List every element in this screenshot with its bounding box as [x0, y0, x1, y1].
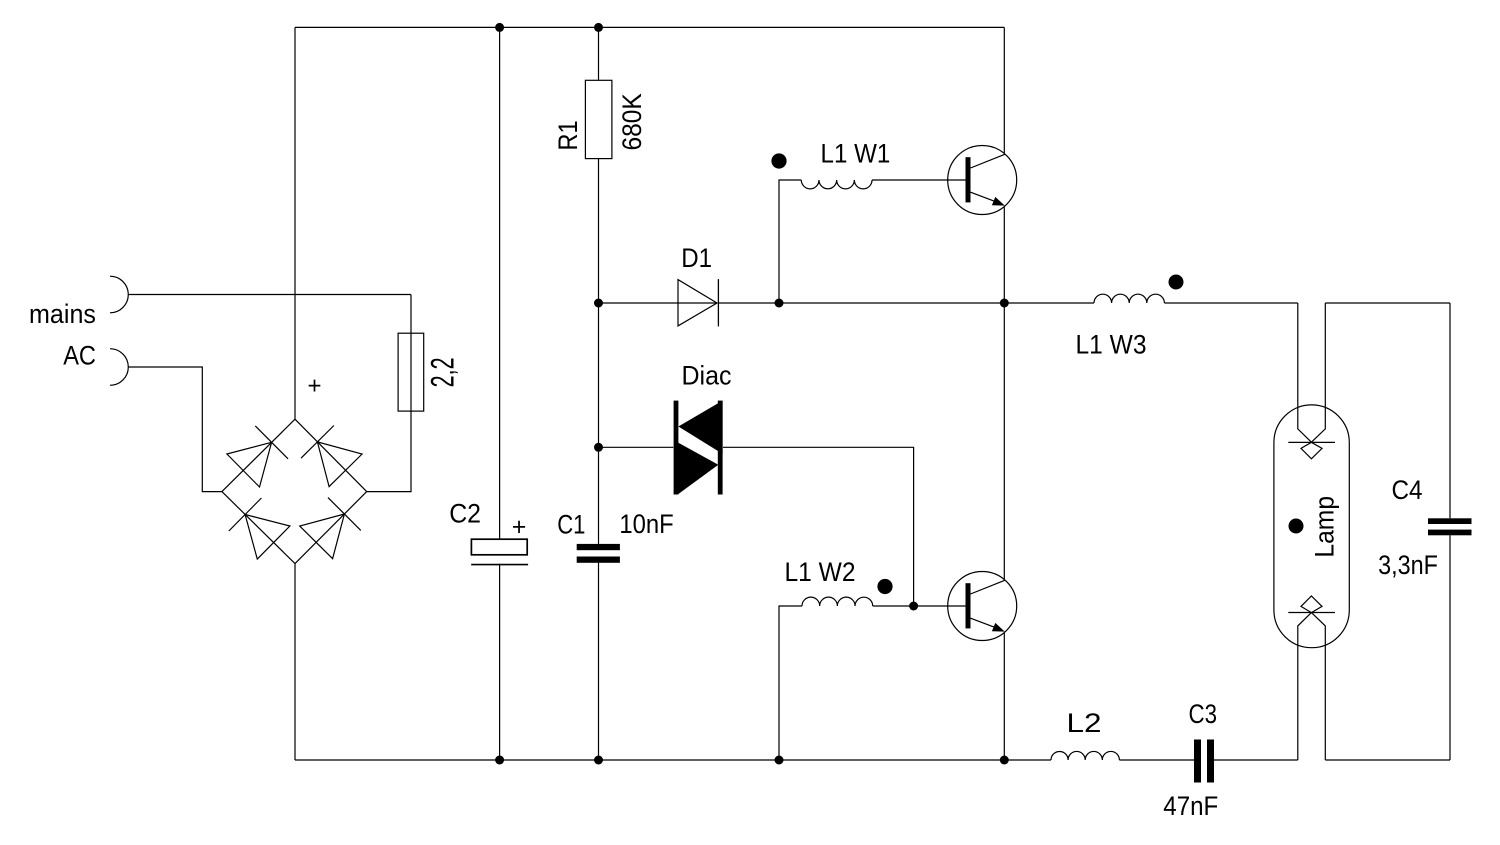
node junction C2 bottom rail	[495, 756, 504, 765]
label R1	[553, 120, 583, 150]
input terminal AC	[110, 349, 128, 386]
wire L2 to C3	[1119, 759, 1194, 761]
wire R1 to node D1	[598, 159, 600, 303]
svg-text:+: +	[307, 372, 321, 399]
svg-text:L2: L2	[1067, 708, 1102, 738]
lamp LP1 envelope	[1274, 405, 1349, 648]
wire C3 to lamp bottom-left lead	[1214, 759, 1298, 761]
wire L1 W3 to lamp top-left lead	[1164, 302, 1297, 304]
capacitor C2 negative plate	[471, 564, 528, 566]
capacitor C1 top plate	[577, 544, 620, 550]
wire Q1 emitter to midpoint	[1003, 207, 1005, 303]
node junction Diac to Q2 base	[909, 602, 918, 611]
label Diac	[682, 361, 732, 391]
lamp cathode dot	[1289, 519, 1304, 534]
wire L1 W2 left leg	[779, 606, 802, 760]
wire top horizontal rail	[295, 26, 1004, 28]
svg-text:C4: C4	[1392, 475, 1423, 505]
winding polarity dot L1 W2	[877, 579, 892, 594]
svg-text:+: +	[512, 513, 527, 541]
winding polarity dot L1 W1	[771, 153, 786, 168]
label Lamp	[1310, 496, 1340, 558]
svg-text:AC: AC	[63, 340, 96, 370]
bridge diode bottom-right (- to AC right)	[295, 492, 367, 564]
wire L1 W1 to Q1 base	[872, 179, 966, 181]
wire Q2 emitter to bottom rail	[1003, 633, 1005, 760]
lamp top electrode	[1288, 303, 1335, 459]
wire lamp top-right lead to C4 branch	[1325, 302, 1450, 304]
winding polarity dot L1 W3	[1169, 275, 1184, 290]
capacitor C4 top plate	[1428, 518, 1472, 524]
label + (bridge positive)	[307, 372, 321, 399]
node junction L1 W1 tap	[775, 299, 784, 308]
wire C4 to bottom	[1449, 535, 1451, 760]
diode D1	[678, 279, 718, 326]
wire mains through fuse to bridge right node	[367, 295, 411, 492]
wire midpoint to Q2 collector	[1003, 303, 1005, 579]
label D1	[681, 243, 712, 273]
diac D2	[674, 401, 723, 495]
inductor L1 W1	[801, 180, 872, 189]
label + (C2 polarity)	[512, 513, 527, 541]
svg-text:Diac: Diac	[682, 361, 732, 391]
wire D1 cathode to half-bridge mid rail	[718, 302, 1094, 304]
wire lamp bottom-right to C4	[1325, 759, 1450, 761]
wire mains terminal to fuse	[128, 294, 411, 296]
wire top rail to Q1 collector	[1003, 27, 1005, 153]
label 10nF	[619, 509, 673, 539]
svg-text:mains: mains	[29, 299, 96, 329]
wire bridge - to bottom rail	[294, 564, 296, 760]
label L1 W1	[821, 139, 891, 169]
label C1	[557, 510, 585, 540]
label L1 W3	[1076, 329, 1147, 359]
svg-text:C2: C2	[449, 498, 481, 528]
label L1 W2	[785, 557, 856, 587]
wire AC terminal to bridge left node	[128, 367, 222, 492]
svg-text:3,3nF: 3,3nF	[1378, 550, 1438, 580]
bridge diode top-left (AC left to +)	[222, 419, 295, 491]
node junction C1 bottom rail	[594, 756, 603, 765]
wire C4 branch down	[1449, 303, 1451, 518]
svg-text:R1: R1	[553, 120, 583, 150]
inductor L1 W3	[1094, 294, 1164, 303]
wire node to Diac	[599, 446, 674, 448]
wire bottom horizontal rail	[295, 759, 1051, 761]
wire C1 to bottom rail	[598, 563, 600, 760]
node junction Diac left	[594, 443, 603, 452]
svg-text:Lamp: Lamp	[1310, 496, 1340, 558]
wire L1 W1 left leg	[779, 180, 801, 303]
svg-text:C3: C3	[1189, 699, 1218, 729]
capacitor C3 left plate	[1194, 740, 1201, 783]
label AC	[63, 340, 96, 370]
node junction D1 anode	[594, 299, 603, 308]
svg-text:L1 W2: L1 W2	[785, 557, 856, 587]
fuse F1 2,2	[398, 333, 424, 411]
wire Diac to Q2 base	[723, 447, 914, 606]
wire L1 W2 to Q2 base	[873, 605, 966, 607]
capacitor C1 bottom plate	[577, 557, 620, 563]
inductor L2	[1051, 751, 1119, 760]
node junction R1 top rail	[594, 23, 603, 32]
resistor R1	[585, 80, 612, 158]
lamp bottom electrode	[1288, 596, 1335, 760]
label 2,2	[425, 357, 461, 387]
capacitor C3 right plate	[1207, 740, 1214, 783]
capacitor C4 bottom plate	[1428, 530, 1472, 536]
transistor Q2	[948, 572, 1017, 641]
svg-text:D1: D1	[681, 243, 712, 273]
label mains	[29, 299, 96, 329]
wire node Diac to C1	[598, 447, 600, 544]
node junction C2 top rail	[495, 23, 504, 32]
transistor Q1	[948, 146, 1017, 215]
wire top rail to C2	[499, 27, 501, 539]
svg-text:10nF: 10nF	[619, 509, 673, 539]
label 47nF	[1163, 791, 1218, 821]
bridge diode bottom-left (- to AC left)	[222, 492, 295, 564]
svg-text:C1: C1	[557, 510, 585, 540]
wire left vertical rail (top wire to bridge +)	[294, 27, 296, 419]
svg-text:L1 W1: L1 W1	[821, 139, 891, 169]
input terminal mains	[110, 276, 128, 313]
label 3,3nF	[1378, 550, 1438, 580]
wire node to D1 anode	[599, 302, 718, 304]
wire node D1 to node Diac	[598, 303, 600, 447]
label L2	[1067, 708, 1102, 738]
wire C2 to bottom rail	[499, 564, 501, 760]
label 680K	[617, 93, 647, 150]
node junction L1 W2 bottom rail	[775, 756, 784, 765]
wire top rail to R1	[598, 27, 600, 80]
label C3	[1189, 699, 1218, 729]
svg-text:L1 W3: L1 W3	[1076, 329, 1147, 359]
svg-text:47nF: 47nF	[1163, 791, 1218, 821]
node junction half-bridge midpoint	[1000, 299, 1009, 308]
capacitor C2 positive plate	[471, 539, 527, 555]
node junction Q2 emitter bottom rail	[1000, 756, 1009, 765]
svg-text:2,2: 2,2	[425, 357, 461, 387]
label C2	[449, 498, 481, 528]
svg-text:680K: 680K	[617, 93, 647, 150]
bridge diode top-right (AC right to +)	[295, 419, 367, 491]
label C4	[1392, 475, 1423, 505]
inductor L1 W2	[802, 597, 873, 606]
